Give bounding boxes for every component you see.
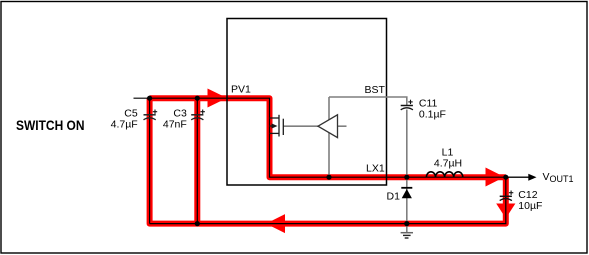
- wire: red current loop return path (C12 branch, bottom rail, C5 branch): [150, 98, 506, 223]
- node: C3 bottom junction: [195, 221, 200, 226]
- current flow arrow into PV1: [208, 89, 228, 108]
- wire: BST net from internal rail to C11: [329, 97, 407, 105]
- wire: VOUT1 lead with arrow: [506, 174, 537, 181]
- svg-text:47nF: 47nF: [163, 118, 187, 130]
- wire: black centerline C5 branch: [149, 98, 151, 223]
- transistor Q1 high-side PMOS switch: [270, 115, 284, 137]
- current flow arrow left along ground return rail: [266, 214, 285, 233]
- svg-text:10µF: 10µF: [518, 200, 542, 212]
- svg-text:4.7µH: 4.7µH: [434, 157, 462, 169]
- capacitor C12: [500, 191, 514, 201]
- diode D1: [401, 188, 412, 199]
- op-amp gate driver buffer (triangle): [318, 115, 338, 138]
- svg-text:0.1µF: 0.1µF: [419, 109, 446, 121]
- svg-text:BST: BST: [365, 84, 386, 96]
- wire: gate wire from MOSFET to driver: [283, 125, 318, 127]
- capacitor C5: [144, 110, 158, 120]
- wire: C11 bottom / D1 branch down to ground rail: [406, 110, 408, 224]
- IC block outline: [227, 19, 387, 186]
- wire: internal buffer supply rail down to LX1: [328, 97, 330, 177]
- capacitor C11: [401, 100, 413, 110]
- wire: red current path through C3 branch: [194, 98, 200, 223]
- ground: [401, 233, 413, 238]
- capacitor C3: [191, 110, 205, 120]
- node: D1 anode to ground rail junction: [404, 221, 409, 226]
- wire: black centerline top rail and switch path to VOUT arrow: [150, 98, 535, 177]
- wire: red current loop main path (PV1 top, switch vertical, LX1 out): [150, 98, 506, 177]
- wire: input stub left of C5 node: [134, 97, 151, 99]
- svg-text:LX1: LX1: [366, 163, 385, 175]
- wire: black centerline C3 branch: [196, 98, 198, 223]
- node: C3 top junction: [195, 96, 200, 101]
- svg-text:D1: D1: [387, 191, 401, 203]
- wire: ground stub below bottom rail: [406, 224, 408, 232]
- svg-text:4.7µF: 4.7µF: [111, 118, 138, 130]
- svg-text:SWITCH ON: SWITCH ON: [16, 118, 85, 133]
- wire: black centerline bottom rail: [150, 177, 506, 223]
- current flow arrow toward VOUT node: [486, 168, 505, 187]
- node: C11/D1 to LX1 junction: [404, 175, 409, 180]
- node: VOUT/C12 junction: [503, 175, 508, 180]
- current flow arrow down into C12: [496, 204, 515, 219]
- svg-text:PV1: PV1: [231, 84, 251, 96]
- node: C5 top junction: [147, 96, 152, 101]
- inductor L1: [426, 172, 462, 177]
- wire: driver input stub: [338, 125, 347, 127]
- node: driver rail to LX1 junction: [326, 175, 331, 180]
